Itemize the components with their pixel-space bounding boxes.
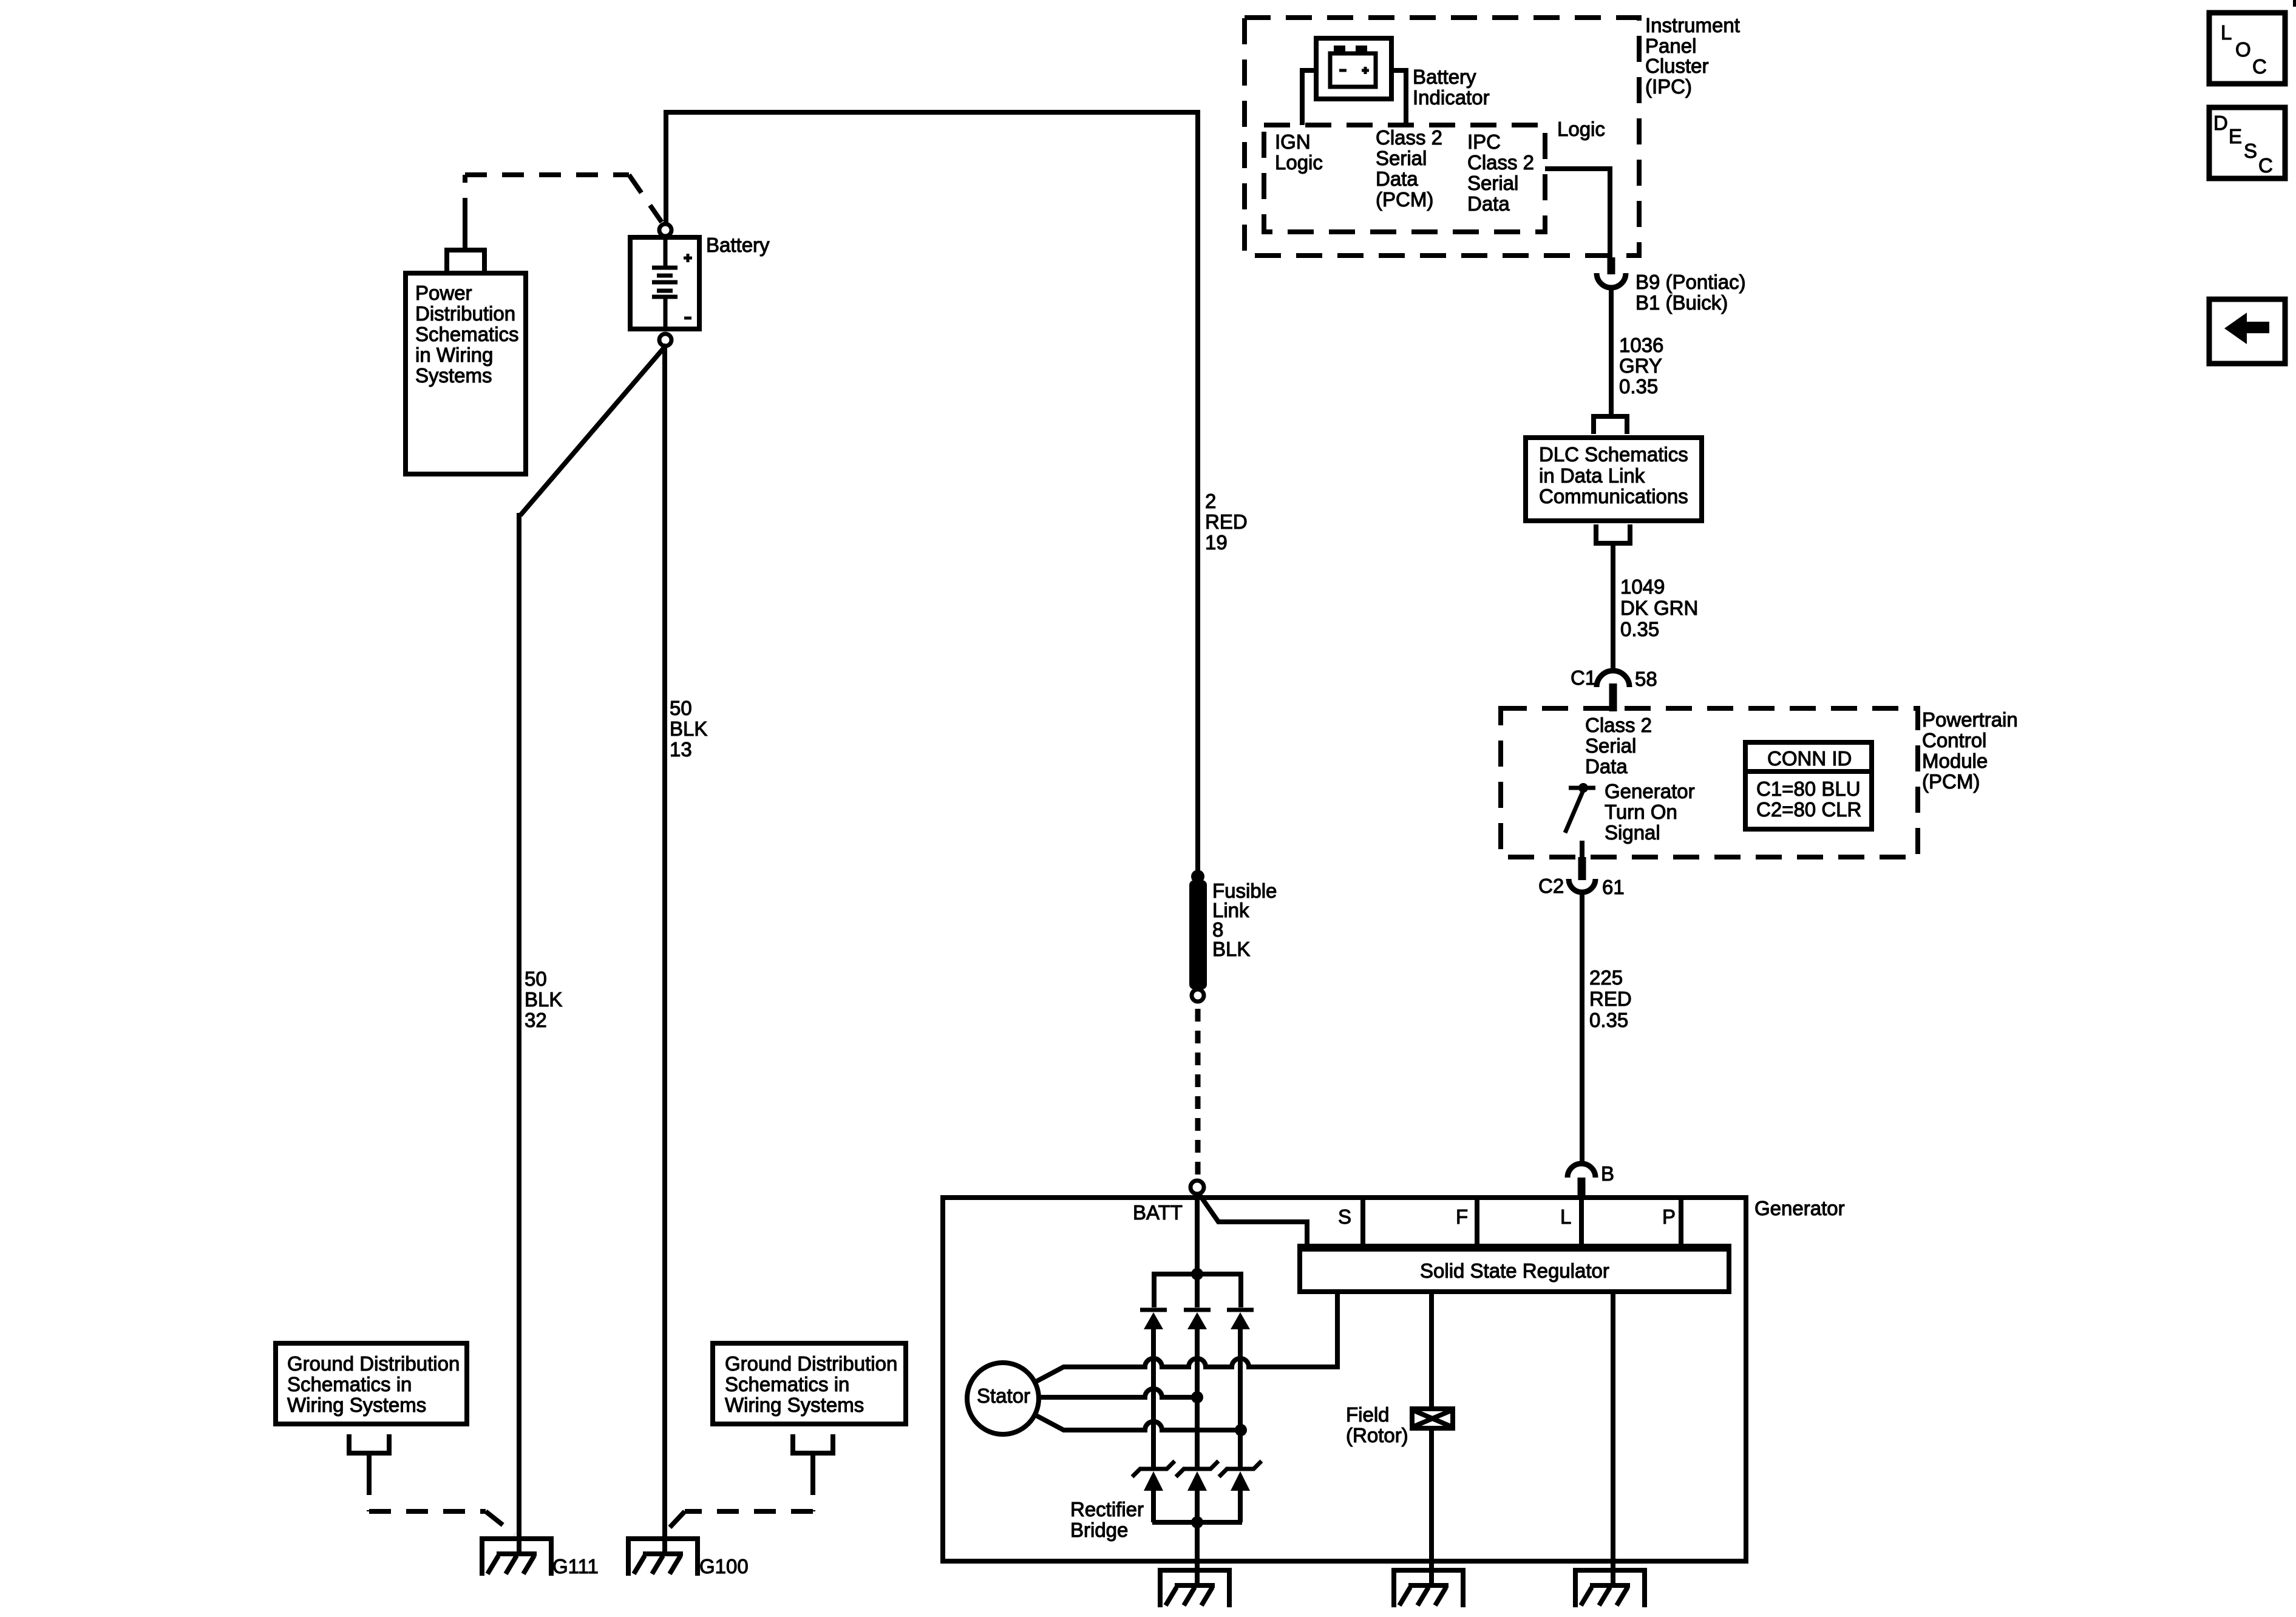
reference box: Power Distribution Schematics in Wiring Systems — [406, 273, 526, 474]
svg-text:Serial: Serial — [1585, 734, 1636, 757]
DESC box — [2209, 107, 2285, 178]
svg-text:G100: G100 — [699, 1555, 749, 1578]
svg-text:L: L — [2221, 21, 2232, 44]
svg-text:Solid State Regulator: Solid State Regulator — [1420, 1259, 1609, 1282]
svg-text:S: S — [2244, 140, 2257, 162]
connector B male pin — [1578, 1178, 1586, 1198]
svg-text:Class 2: Class 2 — [1585, 714, 1652, 736]
svg-text:Data: Data — [1467, 192, 1510, 215]
svg-text:Logic: Logic — [1557, 118, 1605, 140]
diode: rectifier upper left — [1140, 1310, 1167, 1329]
svg-text:50: 50 — [525, 968, 547, 990]
connector B9/B1 female cup — [1597, 273, 1626, 288]
reference box: Ground Distribution (left) — [276, 1343, 467, 1424]
svg-text:32: 32 — [525, 1009, 547, 1031]
wire: stator phase 3 to right leg — [1034, 1414, 1241, 1430]
svg-text:Control: Control — [1922, 729, 1986, 751]
dashed wire: left box to G111 — [369, 1473, 515, 1534]
svg-text:CONN ID: CONN ID — [1767, 747, 1852, 770]
svg-text:58: 58 — [1635, 668, 1657, 690]
wire: battery feed top horizontal — [666, 110, 1198, 115]
connector C2 female cup — [1569, 879, 1595, 892]
svg-text:2: 2 — [1205, 490, 1216, 512]
diode: rectifier upper middle — [1184, 1310, 1211, 1329]
wire: field ground lead — [1429, 1428, 1434, 1585]
svg-text:C: C — [2258, 154, 2273, 177]
svg-text:Instrument: Instrument — [1645, 14, 1740, 36]
svg-text:Cluster: Cluster — [1645, 55, 1709, 77]
reference box: DLC Schematics in Data Link Communications — [1526, 438, 1702, 521]
wire: battery indicator leads — [1302, 70, 1406, 125]
connector C2 male pin 61 — [1578, 857, 1586, 880]
ground G100 — [628, 1539, 698, 1576]
svg-text:Module: Module — [1922, 750, 1988, 772]
wire: 1036 GRY segment — [1609, 288, 1614, 415]
svg-text:Battery: Battery — [706, 234, 770, 256]
svg-text:IGN: IGN — [1275, 131, 1311, 153]
wire: rectifier ground lead — [1195, 1522, 1200, 1585]
stator circle — [967, 1363, 1039, 1434]
svg-text:C1: C1 — [1571, 666, 1596, 689]
wire: rectifier top bar — [1154, 1274, 1241, 1307]
svg-text:BLK: BLK — [1212, 938, 1250, 960]
diode: rectifier upper right — [1227, 1310, 1254, 1329]
svg-text:Indicator: Indicator — [1413, 86, 1490, 109]
connector C1 male pin 58 — [1609, 683, 1617, 711]
wire: stator phase 1 to S sense (hops over legs) — [1034, 1292, 1337, 1383]
svg-text:B1 (Buick): B1 (Buick) — [1635, 291, 1728, 314]
svg-text:DLC Schematics: DLC Schematics — [1539, 443, 1688, 466]
wire: IPC serial data output — [1545, 169, 1610, 260]
svg-text:0.35: 0.35 — [1589, 1009, 1628, 1031]
svg-text:Power: Power — [415, 282, 472, 304]
node: battery positive terminal circle — [659, 224, 671, 236]
svg-text:BATT: BATT — [1133, 1201, 1183, 1224]
svg-text:L: L — [1560, 1205, 1571, 1228]
diode: rectifier lower left (avalanche) — [1132, 1461, 1175, 1491]
wire: battery positive drop — [664, 110, 668, 224]
svg-text:225: 225 — [1589, 966, 1623, 989]
svg-text:Systems: Systems — [415, 364, 492, 387]
wire: field drive from regulator — [1429, 1292, 1434, 1410]
svg-text:1049: 1049 — [1620, 575, 1665, 598]
wire: regulator right ground lead — [1611, 1292, 1615, 1585]
node: generator BATT terminal circle — [1190, 1181, 1204, 1194]
svg-text:S: S — [1338, 1205, 1351, 1228]
page corner tick — [2293, 0, 2296, 7]
svg-text:B9 (Pontiac): B9 (Pontiac) — [1635, 271, 1746, 293]
svg-text:(Rotor): (Rotor) — [1346, 1424, 1408, 1446]
battery G (Battery) — [630, 237, 699, 329]
svg-text:0.35: 0.35 — [1620, 618, 1659, 640]
svg-text:Ground Distribution: Ground Distribution — [287, 1352, 460, 1375]
ground G111 — [482, 1539, 551, 1576]
terminal divider L (B wire continuation) — [1579, 1200, 1584, 1246]
svg-text:Serial: Serial — [1376, 147, 1427, 169]
connector goalpost below right box — [793, 1434, 833, 1473]
svg-text:RED: RED — [1589, 988, 1632, 1010]
dashed box: Powertrain Control Module (PCM) — [1501, 708, 1918, 857]
back arrow box — [2209, 299, 2285, 364]
wire: rectifier middle leg — [1195, 1329, 1200, 1469]
svg-text:G111: G111 — [552, 1555, 599, 1578]
svg-text:Battery: Battery — [1413, 66, 1476, 88]
svg-text:Class 2: Class 2 — [1467, 151, 1534, 174]
svg-text:E: E — [2229, 125, 2242, 147]
connector goalpost above Power Distribution box — [447, 220, 484, 273]
svg-text:F: F — [1456, 1205, 1468, 1228]
svg-text:Stator: Stator — [977, 1385, 1030, 1407]
connector goalpost below DLC box — [1596, 524, 1630, 543]
svg-text:50: 50 — [670, 697, 692, 719]
svg-text:Generator: Generator — [1605, 780, 1695, 802]
svg-text:Bridge: Bridge — [1070, 1519, 1128, 1541]
reference box: Ground Distribution (right) — [713, 1343, 906, 1424]
svg-text:61: 61 — [1602, 876, 1625, 898]
svg-text:GRY: GRY — [1619, 354, 1662, 377]
svg-text:Serial: Serial — [1467, 172, 1518, 194]
svg-text:IPC: IPC — [1467, 131, 1501, 153]
svg-text:DK GRN: DK GRN — [1620, 597, 1698, 619]
svg-text:Turn On: Turn On — [1605, 801, 1677, 823]
svg-text:in Data Link: in Data Link — [1539, 464, 1645, 487]
svg-text:19: 19 — [1205, 531, 1228, 554]
terminal divider P — [1679, 1200, 1683, 1246]
svg-text:Generator: Generator — [1754, 1197, 1845, 1219]
connector B9/B1 male pin — [1608, 257, 1615, 274]
svg-text:(IPC): (IPC) — [1645, 75, 1692, 98]
wire: rectifier left leg — [1151, 1329, 1156, 1469]
fusible link body (Fusible Link 8 BLK) — [1189, 880, 1207, 989]
svg-text:Logic: Logic — [1275, 151, 1323, 174]
fusible link junction dot — [1191, 870, 1204, 883]
svg-text:Signal: Signal — [1605, 821, 1660, 844]
svg-text:Wiring Systems: Wiring Systems — [725, 1394, 864, 1416]
dashed wire: right box to G100 — [665, 1473, 813, 1532]
node: phase 2 junction — [1191, 1391, 1203, 1403]
wire: stator phase 2 to middle leg — [1039, 1389, 1197, 1397]
svg-text:D: D — [2213, 112, 2228, 134]
node: battery negative terminal circle — [659, 334, 671, 346]
wire: 1049 DK GRN segment — [1611, 543, 1615, 673]
svg-text:C: C — [2252, 55, 2267, 78]
svg-text:Schematics: Schematics — [415, 323, 519, 345]
terminal divider F — [1475, 1200, 1479, 1246]
svg-text:Distribution: Distribution — [415, 302, 515, 325]
wire: BATT jog to regulator — [1199, 1194, 1307, 1246]
dashed wire: fusible link to generator BATT — [1195, 1009, 1201, 1178]
svg-text:Rectifier: Rectifier — [1070, 1498, 1144, 1520]
svg-text:C2=80 CLR: C2=80 CLR — [1756, 798, 1861, 821]
node: rectifier top junction — [1191, 1268, 1203, 1280]
svg-text:Panel: Panel — [1645, 35, 1696, 57]
node: rectifier bottom junction — [1191, 1516, 1203, 1528]
diode: rectifier lower right (avalanche) — [1219, 1461, 1262, 1491]
switch: generator turn on signal driver — [1565, 783, 1595, 833]
connector C1 female cup — [1597, 671, 1629, 687]
battery indicator icon — [1316, 38, 1391, 99]
wire: 225 RED segment — [1580, 891, 1584, 1165]
wire: battery negative straight drop to G100 — [662, 346, 667, 1554]
svg-text:Class 2: Class 2 — [1376, 126, 1442, 149]
svg-text:C2: C2 — [1538, 875, 1564, 897]
svg-text:0.35: 0.35 — [1619, 375, 1658, 398]
connector B female cup at generator — [1567, 1164, 1595, 1178]
svg-text:Powertrain: Powertrain — [1922, 708, 2018, 731]
generator box — [943, 1198, 1746, 1561]
CONN ID table — [1745, 742, 1872, 829]
svg-text:P: P — [1662, 1205, 1676, 1228]
terminal divider S — [1360, 1200, 1365, 1246]
fusible link lower terminal circle — [1192, 989, 1204, 1002]
svg-text:Field: Field — [1346, 1403, 1390, 1426]
dashed box: Instrument Panel Cluster (IPC) — [1245, 18, 1639, 256]
svg-text:C1=80 BLU: C1=80 BLU — [1756, 778, 1861, 800]
wire: fusible link feed vertical 2 RED — [1195, 110, 1200, 872]
svg-text:Schematics in: Schematics in — [725, 1373, 849, 1395]
svg-text:13: 13 — [670, 738, 692, 761]
wire: rectifier bottom bar — [1152, 1491, 1242, 1522]
svg-text:O: O — [2235, 38, 2251, 61]
svg-text:B: B — [1601, 1162, 1614, 1185]
svg-text:RED: RED — [1205, 510, 1248, 533]
connector goalpost below left box — [349, 1434, 389, 1473]
svg-text:Schematics in: Schematics in — [287, 1373, 412, 1395]
LOC box — [2209, 13, 2285, 84]
diode: rectifier lower middle (avalanche) — [1176, 1461, 1218, 1491]
svg-text:Wiring Systems: Wiring Systems — [287, 1394, 426, 1416]
dashed wire from Power Distribution box to battery — [465, 175, 662, 222]
ground generator case 2 — [1394, 1570, 1463, 1607]
svg-text:Data: Data — [1376, 168, 1418, 190]
field winding symbol (Field Rotor) — [1412, 1409, 1453, 1428]
svg-text:Communications: Communications — [1539, 485, 1688, 507]
svg-text:(PCM): (PCM) — [1376, 188, 1433, 211]
ground generator case 3 — [1575, 1570, 1645, 1607]
svg-text:(PCM): (PCM) — [1922, 770, 1980, 793]
dashed box: IPC logic block — [1264, 125, 1545, 232]
wire: BATT drop inside generator — [1195, 1192, 1200, 1272]
ground generator case 1 — [1160, 1570, 1229, 1607]
wire: battery negative diagonal to G111 drop — [519, 345, 667, 1554]
svg-text:Ground Distribution: Ground Distribution — [725, 1352, 897, 1375]
svg-text:1036: 1036 — [1619, 334, 1663, 356]
svg-text:in Wiring: in Wiring — [415, 344, 493, 366]
solid state regulator box — [1300, 1246, 1729, 1292]
svg-text:BLK: BLK — [525, 988, 562, 1011]
svg-text:Data: Data — [1585, 755, 1628, 778]
node: phase 3 junction — [1235, 1424, 1247, 1436]
wire: rectifier right leg — [1238, 1329, 1243, 1469]
svg-text:BLK: BLK — [670, 717, 707, 740]
wire: switch to C2 — [1580, 841, 1584, 857]
wire: middle leg top — [1195, 1274, 1200, 1307]
connector goalpost into DLC box — [1594, 416, 1627, 434]
